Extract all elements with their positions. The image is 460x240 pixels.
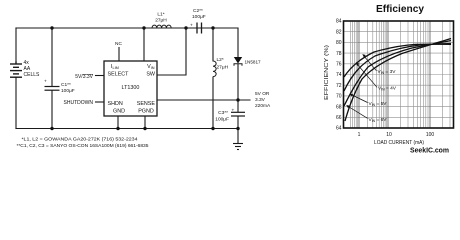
svg-text:PGND: PGND <box>138 109 154 115</box>
wire PGND drop <box>144 116 146 129</box>
label 5V/3.3V select <box>75 74 93 80</box>
svg-text:VIN = 3V: VIN = 3V <box>378 69 397 75</box>
svg-text:3.3V: 3.3V <box>255 97 266 103</box>
svg-text:+: + <box>190 24 193 29</box>
svg-text:SHDN: SHDN <box>108 101 123 107</box>
junction dot output node <box>236 98 239 101</box>
svg-text:100μF: 100μF <box>61 88 75 94</box>
svg-text:100: 100 <box>426 132 435 138</box>
svg-text:SeekIC.com: SeekIC.com <box>410 146 449 155</box>
svg-text:L1*: L1* <box>157 12 164 18</box>
svg-text:C3**: C3** <box>218 110 228 116</box>
inductor L2 27uH <box>213 61 216 77</box>
svg-text:80: 80 <box>336 40 342 46</box>
battery BT1 4x AA cells <box>10 62 22 79</box>
wire left rail lower <box>15 78 17 129</box>
wire C1 branch upper <box>51 28 53 86</box>
wire VIN riser <box>143 28 145 61</box>
svg-text:27μH: 27μH <box>217 65 229 71</box>
svg-text:100μF: 100μF <box>192 14 206 20</box>
svg-text:84: 84 <box>336 19 342 25</box>
svg-text:VIN = 5V: VIN = 5V <box>369 101 388 107</box>
svg-text:100μF: 100μF <box>215 117 229 123</box>
svg-text:5V/3.3V: 5V/3.3V <box>75 74 93 80</box>
svg-text:78: 78 <box>336 51 342 57</box>
svg-text:VIN = 4V: VIN = 4V <box>378 85 397 91</box>
svg-text:72: 72 <box>336 83 342 89</box>
svg-text:NC: NC <box>115 41 122 47</box>
wire GND drop <box>117 116 119 129</box>
curve labels with leaders <box>369 69 397 123</box>
svg-text:CELLS: CELLS <box>24 72 41 78</box>
svg-text:SW: SW <box>146 72 156 78</box>
wire SELECT stub <box>96 75 105 77</box>
svg-text:76: 76 <box>336 62 342 68</box>
wire NC stub <box>118 48 120 62</box>
svg-text:SENSE: SENSE <box>137 101 156 107</box>
curve VIN=3V <box>344 44 451 77</box>
svg-text:EFFICIENCY (%): EFFICIENCY (%) <box>324 45 330 100</box>
svg-text:70: 70 <box>336 94 342 100</box>
svg-text:82: 82 <box>336 29 342 35</box>
svg-text:64: 64 <box>336 126 342 132</box>
wire left rail upper <box>15 28 17 62</box>
chart gridlines <box>344 21 454 128</box>
svg-text:74: 74 <box>336 72 342 78</box>
svg-text:220mA: 220mA <box>255 103 271 109</box>
diode D1 1N5817 schottky <box>234 57 261 66</box>
junction dots top rail <box>50 26 214 29</box>
IC U1 LT1300 <box>104 61 157 116</box>
svg-text:*L1, L2 = GOWANDA GA20-272K (7: *L1, L2 = GOWANDA GA20-272K (716) 532-22… <box>22 137 138 143</box>
wire L2 branch <box>212 28 214 129</box>
svg-text:5V OR: 5V OR <box>255 91 270 97</box>
ground symbol <box>233 129 243 150</box>
capacitor C1 100uF <box>45 87 60 91</box>
curve VIN=4V <box>344 44 451 92</box>
wire diode branch <box>237 28 239 129</box>
curve VIN=5V <box>344 41 451 107</box>
junction dots bottom rail <box>50 127 239 130</box>
curve VIN=6V <box>345 39 451 122</box>
chart frame <box>344 21 454 128</box>
svg-text:C2**: C2** <box>193 8 203 14</box>
svg-text:SELECT: SELECT <box>108 72 130 78</box>
inductor L1 27uH <box>152 25 171 28</box>
wire bottom rail <box>16 128 239 130</box>
wire SHDN stub <box>96 101 105 103</box>
capacitor C3 100uF <box>231 112 245 116</box>
svg-text:GND: GND <box>113 109 125 115</box>
svg-text:27μH: 27μH <box>155 18 167 24</box>
wire top rail <box>16 27 238 29</box>
svg-text:+: + <box>44 80 47 85</box>
svg-text:1N5817: 1N5817 <box>245 60 262 65</box>
svg-text:C1**: C1** <box>61 82 71 88</box>
svg-text:SHUTDOWN: SHUTDOWN <box>64 100 94 106</box>
x axis labels <box>358 132 435 138</box>
svg-text:LT1300: LT1300 <box>122 85 140 91</box>
svg-text:Efficiency: Efficiency <box>376 4 424 15</box>
svg-text:66: 66 <box>336 115 342 121</box>
svg-text:68: 68 <box>336 104 342 110</box>
wire C1 branch lower <box>51 91 53 129</box>
wire SENSE line <box>157 99 250 101</box>
svg-text:10: 10 <box>386 132 392 138</box>
capacitor C2 100uF <box>197 23 202 34</box>
svg-text:+: + <box>232 109 235 114</box>
wire SW to riser <box>157 28 186 75</box>
svg-text:VIN = 6V: VIN = 6V <box>369 117 388 123</box>
output label 5V OR 3.3V 220mA <box>255 91 271 109</box>
y axis labels <box>336 19 342 132</box>
svg-text:L2*: L2* <box>217 57 224 63</box>
svg-text:1: 1 <box>358 132 361 138</box>
svg-text:**C1, C2, C3 = SANYO OS-CON 16: **C1, C2, C3 = SANYO OS-CON 16SA100M (61… <box>17 143 149 149</box>
